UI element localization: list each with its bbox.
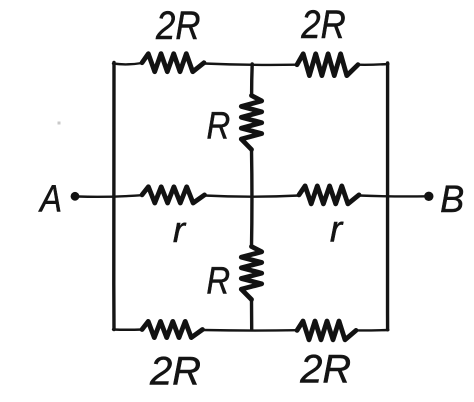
- resistor 2R (bottom-left): [142, 321, 203, 337]
- wire: top rail, left segment (left rail to 2R): [113, 63, 142, 64]
- wire: middle row, centre segment (r to right r, crossing centre rail): [205, 196, 300, 197]
- resistor R (centre upper, vertical): [241, 96, 261, 150]
- svg-text:R: R: [206, 259, 230, 302]
- wire: bottom rail, middle segment (2R to 2R through centre node): [203, 329, 298, 332]
- wire: centre vertical, bottom segment (lower R to bottom rail): [250, 299, 254, 330]
- resistor r (middle-left): [142, 187, 205, 203]
- wire: bottom rail, right segment (2R to right rail): [356, 329, 388, 332]
- wire: bottom rail, left segment (left rail to 2R): [113, 328, 142, 331]
- wire: top rail, right segment (2R to right rail): [358, 63, 388, 66]
- wire: right vertical rail: [386, 63, 390, 330]
- label r (middle-right): [330, 208, 344, 249]
- label node A: [38, 178, 62, 221]
- wire: centre vertical, top segment (top rail to upper R): [250, 64, 254, 96]
- resistor R (centre lower, vertical): [241, 247, 261, 300]
- wire: left vertical rail: [112, 63, 116, 330]
- svg-text:2R: 2R: [149, 349, 201, 393]
- svg-text:2R: 2R: [155, 3, 200, 48]
- svg-text:r: r: [173, 209, 187, 250]
- svg-text:A: A: [38, 178, 62, 221]
- label R (centre lower): [206, 259, 230, 302]
- svg-text:2R: 2R: [300, 2, 345, 47]
- label 2R (bottom-right): [299, 347, 351, 391]
- svg-text:2R: 2R: [299, 347, 351, 391]
- label 2R (bottom-left): [149, 349, 201, 393]
- wire: node A to left resistor r: [78, 195, 142, 197]
- resistor 2R (bottom-right): [297, 321, 356, 340]
- node A terminal dot: [71, 192, 80, 201]
- wire: centre vertical, middle segment (upper R to lower R, crossing node): [250, 149, 254, 247]
- resistor 2R (top-right): [297, 54, 358, 76]
- resistor r (middle-right): [299, 186, 359, 204]
- label R (centre upper): [207, 104, 231, 147]
- wire: right resistor r to node B: [359, 194, 426, 197]
- svg-text:R: R: [207, 104, 231, 147]
- label 2R (top-right): [300, 2, 345, 47]
- wire: top rail, middle segment (2R to 2R through centre node): [204, 64, 297, 65]
- resistor 2R (top-left): [142, 54, 204, 72]
- label 2R (top-left): [155, 3, 200, 48]
- label node B: [440, 177, 464, 220]
- node B terminal dot: [424, 192, 433, 201]
- label r (middle-left): [173, 209, 187, 250]
- svg-text:r: r: [330, 208, 344, 249]
- svg-text:B: B: [440, 177, 464, 220]
